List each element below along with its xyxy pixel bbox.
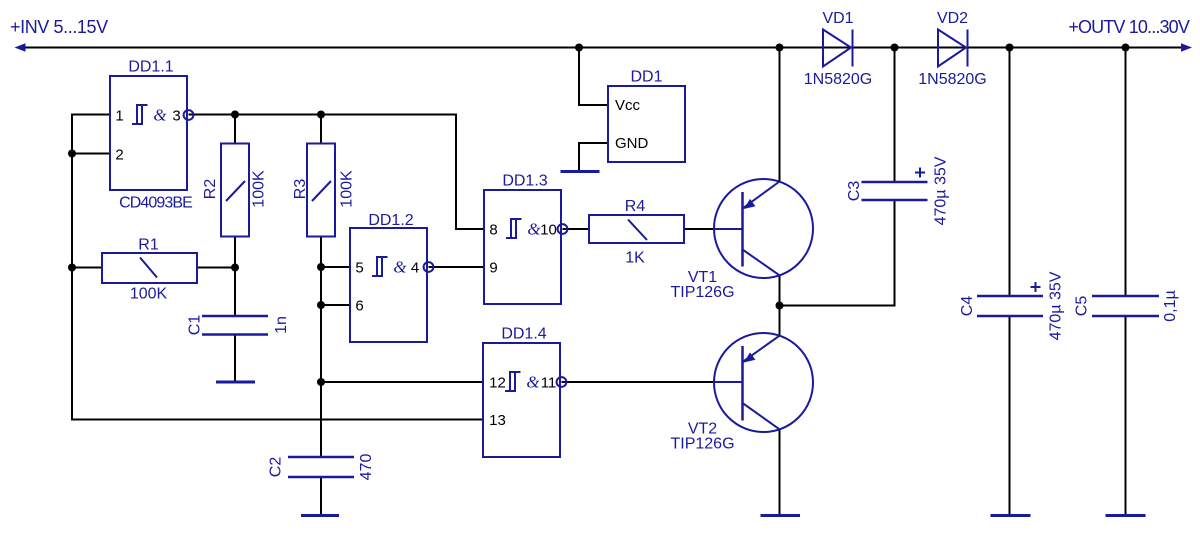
svg-text:R1: R1 [138,237,159,254]
svg-text:R3: R3 [292,179,309,200]
svg-text:470µ 35V: 470µ 35V [1048,271,1065,340]
svg-text:9: 9 [489,260,497,277]
svg-text:1K: 1K [625,250,645,267]
svg-text:100K: 100K [130,286,168,303]
svg-text:2: 2 [115,147,123,164]
svg-text:12: 12 [489,375,506,392]
svg-text:CD4093BE: CD4093BE [119,195,192,212]
svg-text:6: 6 [355,298,363,315]
svg-text:0,1µ: 0,1µ [1162,290,1179,321]
svg-text:VD1: VD1 [822,10,853,27]
svg-text:GND: GND [615,135,649,152]
svg-text:C5: C5 [1074,296,1091,317]
svg-text:DD1.1: DD1.1 [128,59,173,76]
svg-text:C4: C4 [959,296,976,317]
svg-text:8: 8 [489,222,497,239]
svg-text:VD2: VD2 [937,10,968,27]
svg-text:470: 470 [358,454,375,481]
svg-text:C3: C3 [846,181,863,202]
svg-text:11: 11 [541,375,557,392]
svg-text:1N5820G: 1N5820G [918,71,987,88]
svg-text:DD1.2: DD1.2 [368,212,413,229]
svg-text:R4: R4 [625,198,646,215]
svg-text:&: & [153,106,167,125]
svg-text:&: & [393,258,407,277]
svg-text:10: 10 [540,222,557,239]
svg-text:+INV 5...15V: +INV 5...15V [10,17,108,37]
svg-text:DD1.3: DD1.3 [502,173,547,190]
svg-text:C2: C2 [268,457,285,478]
svg-text:3: 3 [172,108,180,125]
svg-text:100K: 100K [339,170,356,208]
svg-text:+OUTV 10...30V: +OUTV 10...30V [1068,17,1190,37]
svg-text:1: 1 [115,108,123,125]
svg-text:DD1.4: DD1.4 [501,326,546,343]
svg-text:1n: 1n [273,316,290,334]
svg-text:&: & [526,373,540,392]
svg-text:C1: C1 [187,315,204,336]
svg-text:Vcc: Vcc [615,97,641,114]
svg-text:470µ 35V: 470µ 35V [933,156,950,225]
svg-text:1N5820G: 1N5820G [804,71,873,88]
svg-text:4: 4 [411,260,419,277]
svg-text:DD1: DD1 [630,69,662,86]
svg-text:TIP126G: TIP126G [670,284,734,301]
svg-text:TIP126G: TIP126G [670,436,734,453]
svg-text:&: & [527,220,541,239]
svg-text:13: 13 [489,412,506,429]
svg-text:R2: R2 [202,179,219,200]
svg-text:5: 5 [355,260,363,277]
svg-text:100K: 100K [251,170,268,208]
